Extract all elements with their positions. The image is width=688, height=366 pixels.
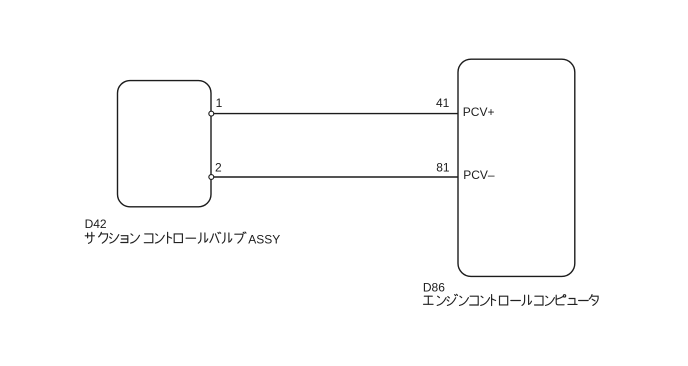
wire 2 (D42 pin2 to D86 pin81) bbox=[211, 176, 458, 178]
connector box D42 bbox=[118, 81, 212, 207]
svg-text:D42: D42 bbox=[85, 217, 107, 231]
svg-text:ASSY: ASSY bbox=[248, 233, 280, 247]
svg-text:PCV–: PCV– bbox=[463, 168, 495, 182]
svg-text:2: 2 bbox=[215, 160, 222, 174]
connector box D86 bbox=[458, 59, 575, 276]
svg-text:PCV+: PCV+ bbox=[463, 105, 495, 119]
pin terminal circle 2 bbox=[209, 175, 214, 180]
wire 1 (D42 pin1 to D86 pin41) bbox=[211, 113, 458, 115]
label katakana line2: engine control computer bbox=[424, 294, 599, 305]
svg-text:41: 41 bbox=[436, 96, 450, 110]
label katakana line1: suction control valve bbox=[85, 232, 246, 243]
svg-text:D86: D86 bbox=[423, 281, 445, 295]
svg-text:1: 1 bbox=[216, 96, 223, 110]
svg-text:81: 81 bbox=[436, 161, 450, 175]
pin terminal circle 1 bbox=[209, 111, 214, 116]
